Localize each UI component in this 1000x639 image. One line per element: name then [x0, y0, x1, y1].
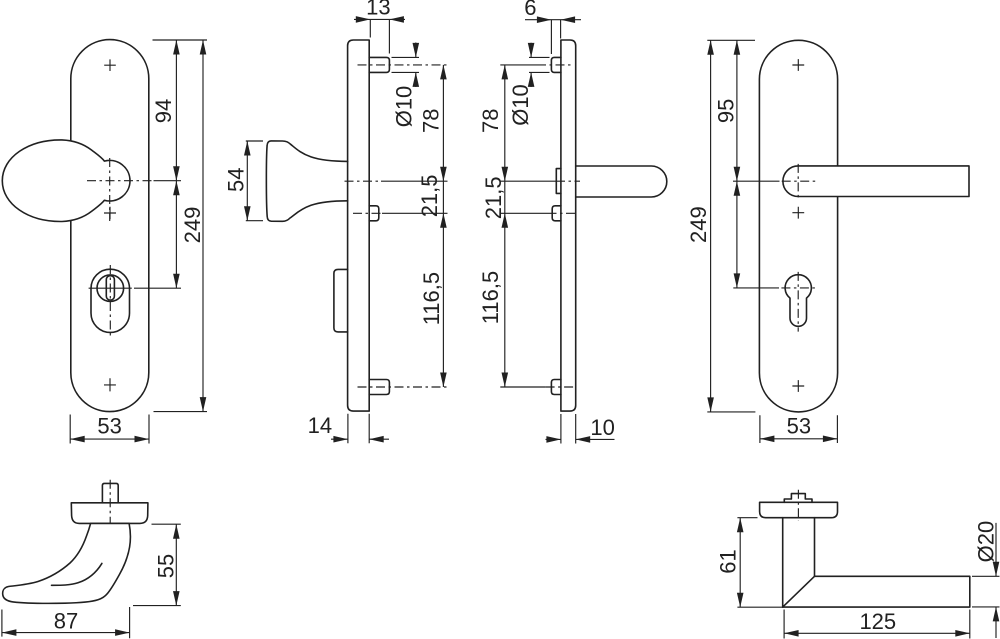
svg-text:78: 78 — [478, 109, 503, 133]
lever spindle centerline — [797, 490, 799, 521]
cylinder cover side view2 — [334, 269, 348, 332]
spindle hub view3 — [556, 169, 561, 194]
dimension 249 line view4 — [710, 40, 712, 412]
dimension 249 line view1 — [202, 40, 204, 412]
dimension 10 line — [546, 438, 615, 440]
svg-text:125: 125 — [859, 609, 896, 634]
dimension 61 extension lines — [737, 518, 783, 608]
svg-text:87: 87 — [54, 608, 78, 633]
knob spindle pin — [102, 483, 118, 502]
top fixing bolt view2 — [369, 57, 389, 72]
centerline top bolt view2 — [358, 64, 448, 66]
knob spindle centerline — [109, 480, 111, 528]
dimension 55 extension lines — [133, 524, 181, 605]
dimension diameter20 extension lines — [972, 576, 1000, 607]
hub centerline horizontal view4 — [782, 180, 818, 182]
dimension 10 extension lines — [561, 414, 576, 444]
lever neck and bar — [783, 518, 970, 607]
svg-text:61: 61 — [716, 549, 741, 573]
centerline top bolt view3 — [537, 64, 571, 66]
knob centerline vertical — [109, 158, 111, 221]
svg-text:54: 54 — [223, 168, 248, 192]
extension hub center to dim view4 — [733, 180, 780, 182]
svg-text:Ø10: Ø10 — [391, 86, 416, 128]
extension line top view4 — [707, 39, 755, 41]
svg-text:78: 78 — [419, 109, 444, 133]
centerline mid bolt view2 — [353, 212, 382, 214]
plate side outline view2 — [348, 40, 370, 411]
cylinder centerline horizontal — [89, 287, 132, 289]
dimension 54 extension lines — [246, 141, 263, 221]
extension line top view1 — [153, 39, 208, 41]
cylinder centerline vertical — [109, 265, 111, 337]
dimension 53 view1 line — [70, 438, 149, 440]
svg-text:Ø10: Ø10 — [508, 84, 533, 126]
dimension 125 extension lines — [784, 610, 970, 639]
LEVER profile figure — [716, 490, 1000, 639]
dimension 61 line — [739, 518, 741, 608]
svg-text:6: 6 — [524, 0, 536, 20]
dimension 53 view1 extension lines — [70, 415, 149, 444]
plate outline view1 — [71, 40, 149, 412]
screw cross mid view4 — [792, 207, 804, 219]
extension line cylinder center to dim — [134, 287, 181, 289]
cylinder core circle — [97, 275, 124, 302]
svg-text:14: 14 — [308, 413, 332, 438]
svg-text:94: 94 — [151, 99, 176, 123]
dimension 14 line — [331, 438, 389, 440]
lever miter joint line — [783, 576, 815, 607]
dimension 125 line — [784, 632, 970, 634]
knob cap — [71, 503, 148, 524]
lever spindle pin castellated — [784, 494, 812, 503]
extension handle centerline view3 — [500, 180, 556, 182]
top fixing bolt view3 — [551, 57, 561, 72]
svg-text:249: 249 — [686, 206, 711, 243]
cylinder keyway slot — [106, 276, 114, 300]
dimension diameter10 arrows view2 — [415, 43, 417, 88]
dimension 6 line — [525, 19, 581, 21]
plate side outline view3 — [561, 40, 576, 411]
svg-text:116,5: 116,5 — [478, 271, 503, 324]
mid fixing bolt view3 — [552, 206, 561, 221]
dimension diameter10 extension lines view3 — [529, 57, 550, 72]
KNOB profile figure — [2, 480, 181, 638]
dimension 87 line — [2, 632, 130, 634]
dimension chain line view2 — [442, 65, 444, 387]
svg-text:53: 53 — [97, 413, 121, 438]
dimension 55 line — [175, 524, 177, 605]
keyhole centerline vertical — [797, 272, 799, 332]
knob grip contour line — [52, 563, 102, 585]
svg-text:95: 95 — [714, 99, 739, 123]
knob side profile — [266, 141, 347, 221]
knob front blob — [2, 140, 130, 222]
screw cross bottom view1 — [104, 378, 116, 391]
dimension 53 view4 line — [760, 438, 838, 440]
VIEW4 front view of lever plate — [686, 40, 969, 443]
mid fixing bolt view2 — [369, 206, 379, 221]
lever front view4 — [783, 166, 969, 197]
centerline bottom bolt view3 — [546, 386, 576, 388]
dimension 72 unlabeled line — [175, 181, 177, 289]
svg-text:21,5: 21,5 — [481, 176, 506, 219]
screw cross mid view1 — [104, 207, 116, 220]
svg-text:13: 13 — [366, 0, 390, 20]
keyhole euro profile view4 — [785, 275, 811, 327]
knob grip outline — [3, 523, 131, 603]
extension line knob center to dim — [154, 180, 182, 182]
extension line bottom view1 — [154, 411, 208, 413]
dimension 14 extension lines — [348, 414, 369, 444]
svg-text:249: 249 — [180, 207, 205, 244]
dimension 94 line — [175, 40, 177, 181]
extension mid bolt centerline view3 — [500, 212, 547, 214]
dimension diameter20 arrows — [995, 523, 997, 638]
lever side view3 — [576, 166, 667, 197]
keyhole centerline horizontal — [781, 287, 815, 289]
extension handle centerline to dim view2 — [381, 180, 448, 182]
extension bottom bolt centerline view3 — [500, 386, 545, 388]
dimension 13 line — [354, 18, 405, 20]
knob centerline horizontal — [87, 180, 153, 182]
centerline bottom bolt view2 — [358, 386, 448, 388]
VIEW3 side view of lever plate — [478, 0, 667, 444]
dimension diameter10 extension lines view2 — [392, 57, 420, 72]
svg-text:116,5: 116,5 — [419, 272, 444, 325]
screw cross bottom view4 — [792, 380, 804, 392]
dimension 53 view4 extension lines — [760, 415, 838, 443]
bottom fixing bolt view2 — [369, 380, 389, 395]
dimension 87 extension lines — [2, 607, 130, 638]
svg-text:53: 53 — [787, 414, 811, 439]
bottom fixing bolt view3 — [551, 380, 561, 395]
dimension 72 unlabeled line view4 — [736, 181, 738, 288]
centerline handle view3 — [556, 180, 580, 182]
svg-text:10: 10 — [590, 415, 614, 440]
dimension chain line view3 — [504, 65, 506, 387]
svg-text:Ø20: Ø20 — [973, 521, 998, 563]
centerline mid bolt view3 — [548, 212, 576, 214]
dimension 54 line — [246, 141, 248, 221]
plate outline view4 — [759, 40, 837, 412]
lever cap — [760, 502, 838, 517]
extension top bolt centerline to dim view3 — [500, 64, 537, 66]
dimension diameter10 arrows view3 — [530, 43, 532, 87]
svg-text:21,5: 21,5 — [417, 174, 442, 217]
extension line bottom view4 — [707, 411, 755, 413]
dimension 13 extension lines — [370, 19, 389, 53]
dimension 95 line — [736, 40, 738, 181]
centerline handle view2 — [345, 180, 382, 182]
hub centerline vertical view4 — [797, 164, 799, 200]
VIEW1 front view of knob plate — [2, 40, 207, 444]
svg-text:55: 55 — [154, 554, 179, 578]
extension keyhole center to dim view4 — [733, 287, 779, 289]
dimension 6 extension lines — [551, 20, 560, 54]
screw cross top view1 — [104, 59, 116, 71]
screw cross top view4 — [792, 59, 804, 71]
VIEW2 side view of knob plate — [223, 0, 447, 443]
cylinder oval outer — [91, 269, 130, 332]
